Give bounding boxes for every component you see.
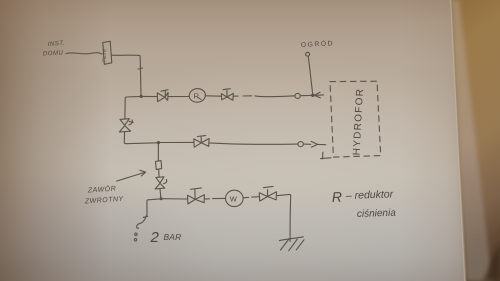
valve V6 bbox=[259, 193, 267, 201]
svg-text:BAR: BAR bbox=[164, 232, 182, 242]
check valve CV2 bbox=[156, 177, 164, 183]
wire V1 to reducer R bbox=[168, 96, 189, 98]
right-edge paper shading bbox=[400, 0, 466, 281]
valve V3 bbox=[194, 139, 202, 147]
wire filter to node J1 bbox=[112, 55, 141, 96]
stray corner mark left of box bbox=[321, 157, 331, 160]
svg-text:ciśnienia: ciśnienia bbox=[357, 208, 397, 220]
water meter W bbox=[226, 190, 244, 206]
node J2 bbox=[157, 141, 160, 144]
arrow into hydrofor (lower) bbox=[303, 143, 310, 145]
wire V3 to hydrofor lower port bbox=[209, 143, 298, 144]
wire J1 to valve V1 bbox=[141, 95, 157, 97]
svg-text:R: R bbox=[332, 189, 343, 205]
wire V5 to meter bbox=[204, 198, 209, 200]
wire strainer to CV2 bbox=[158, 169, 161, 177]
wire J2 down to strainer bbox=[157, 143, 159, 161]
wire J2 to valve V3 bbox=[160, 141, 194, 143]
wooden table at right bbox=[452, 0, 500, 281]
wire J1 left and down (corner) bbox=[125, 96, 141, 118]
hydrofor dashed box bbox=[330, 81, 381, 157]
svg-text:R: R bbox=[194, 92, 200, 101]
ground / drain symbol bbox=[279, 237, 303, 241]
shadow of paper edge cast on table bbox=[452, 0, 493, 281]
arrowhead into node J3 (from hydrofor) bbox=[314, 92, 320, 98]
filter F1 box bbox=[103, 41, 112, 64]
valve V1 bbox=[157, 93, 165, 102]
dark table corner bottom-right bbox=[483, 243, 500, 281]
node J4 bbox=[160, 197, 163, 200]
svg-text:INST.: INST. bbox=[48, 40, 66, 48]
label R - reduktor cisnienia bbox=[332, 188, 397, 220]
valve V4 bbox=[221, 94, 227, 100]
wire house to filter bbox=[66, 53, 102, 54]
bottom line left corner bbox=[147, 199, 161, 215]
wire ogrod down to J3 bbox=[308, 56, 312, 93]
svg-text:FILTR: FILTR bbox=[102, 48, 108, 62]
svg-text:– reduktor: – reduktor bbox=[345, 188, 394, 202]
port circle (union) bottom bbox=[298, 142, 303, 147]
label HYDROFOR bbox=[352, 88, 367, 156]
drain tap bbox=[145, 215, 147, 218]
ogrod stub circle bbox=[306, 52, 310, 56]
wire R to valve V4 bbox=[205, 95, 221, 97]
strainer (zawor zwrotny) rectangle bbox=[156, 161, 162, 170]
node J3 bbox=[311, 94, 314, 97]
check valve CV1 bbox=[120, 119, 129, 126]
wire CV1 down to lower line corner bbox=[124, 132, 157, 144]
wire port to node J3 bbox=[300, 94, 311, 96]
port circle (union) top bbox=[295, 93, 300, 98]
label ZAWOR ZWROTNY bbox=[84, 184, 125, 206]
dashed wire to hydrofor port bbox=[234, 95, 239, 97]
drip circles bbox=[135, 233, 137, 235]
wire J4 to valve V5 bbox=[163, 198, 188, 200]
pressure reducer R (circle) bbox=[189, 88, 207, 103]
label 2 BAR bbox=[150, 229, 182, 246]
wire meter to valve V6 bbox=[243, 196, 249, 198]
valve V5 bbox=[188, 195, 196, 204]
svg-text:2: 2 bbox=[150, 229, 160, 246]
annotation arrow to strainer bbox=[117, 172, 145, 181]
wire V6 to down corner bbox=[277, 194, 291, 241]
ink drawing bbox=[43, 38, 397, 251]
paper edge line bbox=[452, 0, 466, 281]
label FILTR bbox=[102, 48, 108, 62]
svg-text:W: W bbox=[230, 194, 238, 203]
node J1 bbox=[140, 95, 143, 98]
svg-text:DOMU: DOMU bbox=[43, 49, 64, 57]
wire CV2 to node J4 bbox=[159, 189, 162, 199]
label OGROD bbox=[301, 38, 335, 49]
label INST. DOMU bbox=[43, 40, 65, 58]
